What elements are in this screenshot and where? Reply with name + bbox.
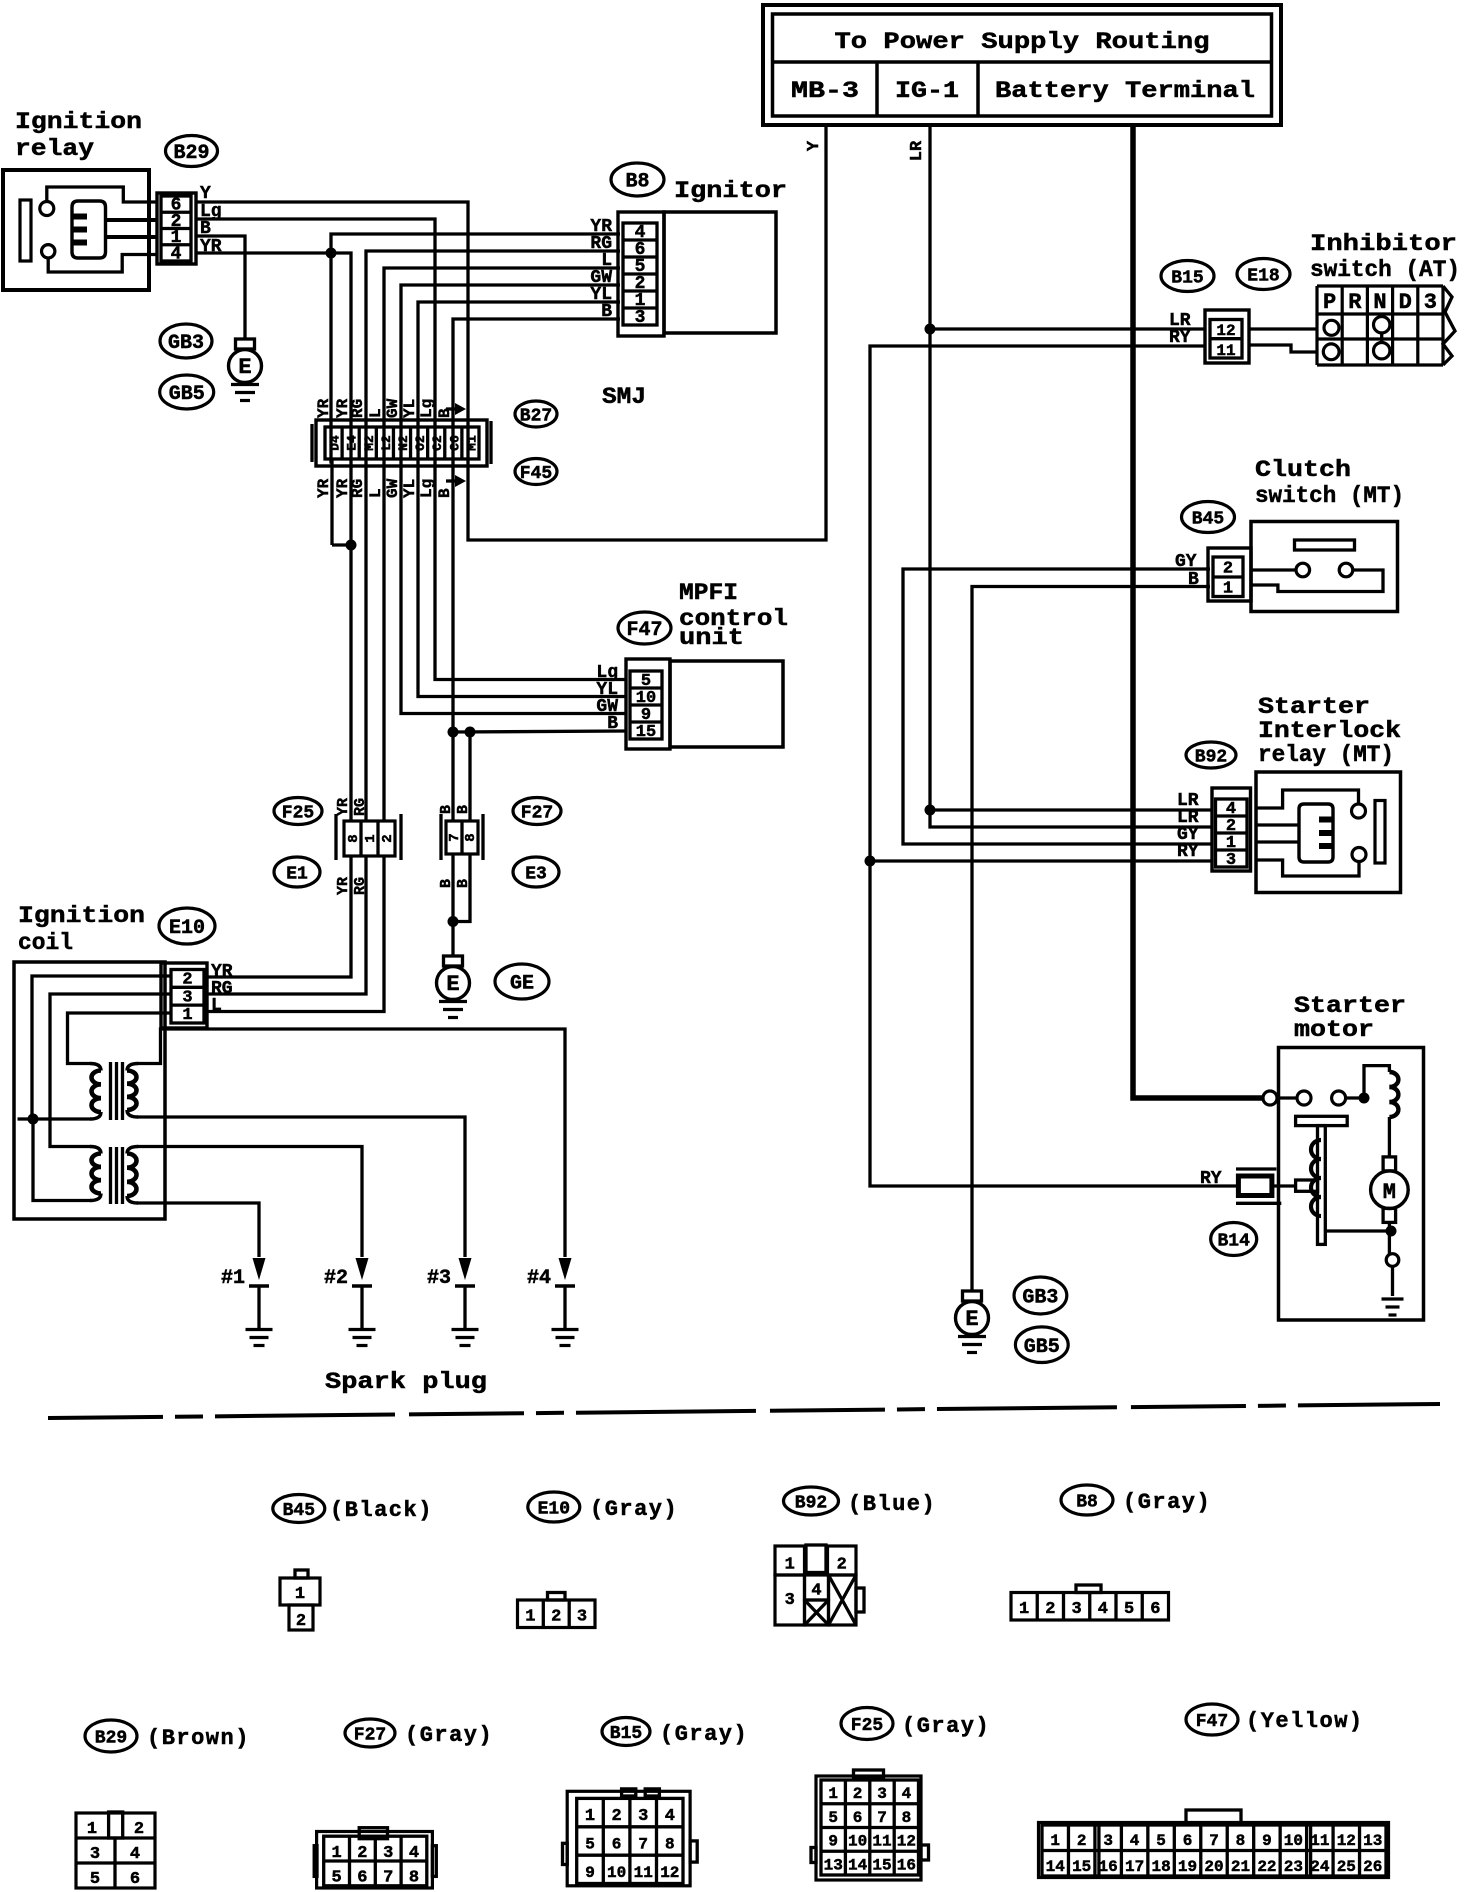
svg-text:(Gray): (Gray) bbox=[1123, 1490, 1211, 1515]
svg-text:E10: E10 bbox=[538, 1499, 570, 1519]
wire YR to ignitor pin4 bbox=[331, 234, 620, 253]
spark plug #1 bbox=[253, 1258, 266, 1280]
svg-text:26: 26 bbox=[1363, 1858, 1382, 1876]
svg-text:4: 4 bbox=[1130, 1832, 1140, 1850]
starter solenoid hold winding bbox=[1311, 1140, 1321, 1159]
svg-text:MPFI: MPFI bbox=[679, 580, 738, 606]
svg-text:F27: F27 bbox=[354, 1725, 386, 1745]
svg-text:GB3: GB3 bbox=[168, 332, 204, 355]
transformer 1 primary winding bbox=[90, 1064, 101, 1071]
interlock bottom contact circle bbox=[1352, 848, 1366, 862]
wire B to MPFI pin15 bbox=[453, 731, 626, 732]
starter motor ground bbox=[1391, 1266, 1394, 1296]
svg-text:4: 4 bbox=[409, 1844, 419, 1863]
svg-text:B29: B29 bbox=[173, 142, 209, 165]
svg-text:8: 8 bbox=[463, 833, 479, 841]
transformer 1 secondary winding bbox=[127, 1064, 138, 1071]
interlock internal wire pin3 to bottom contact bbox=[1256, 860, 1359, 876]
wire spark plug 1 from transformer2 secondary bottom bbox=[137, 1203, 259, 1257]
svg-text:2: 2 bbox=[853, 1785, 863, 1803]
svg-text:F47: F47 bbox=[626, 619, 662, 642]
starter motor junction to solenoid coil bbox=[1346, 1096, 1364, 1099]
clutch internal wire pin2 to contact bbox=[1251, 568, 1296, 571]
interlock internal wire pin4 to top contact bbox=[1256, 790, 1359, 808]
svg-text:B92: B92 bbox=[795, 1493, 827, 1513]
svg-text:B: B bbox=[455, 805, 472, 814]
svg-text:(Brown): (Brown) bbox=[147, 1726, 250, 1751]
inhibitor connector pins 12-11 bbox=[1205, 310, 1249, 363]
svg-text:F45: F45 bbox=[520, 464, 552, 484]
svg-text:GW: GW bbox=[384, 478, 402, 498]
svg-text:4: 4 bbox=[1098, 1600, 1108, 1619]
svg-text:16: 16 bbox=[1099, 1858, 1118, 1876]
svg-text:8: 8 bbox=[1236, 1832, 1246, 1850]
MPFI box bbox=[670, 661, 783, 747]
wire YR branch to SMJ wire2 bbox=[331, 253, 351, 820]
svg-text:3: 3 bbox=[1103, 1832, 1113, 1850]
ignition relay internal wire top-contact to pin6 bbox=[47, 187, 157, 202]
svg-text:8: 8 bbox=[902, 1809, 912, 1827]
connector badge F47 bbox=[618, 612, 671, 644]
svg-text:To Power Supply Routing: To Power Supply Routing bbox=[835, 29, 1210, 55]
wire spark plug 3 from transformer1 secondary bottom bbox=[137, 1117, 465, 1257]
svg-text:2: 2 bbox=[380, 834, 396, 842]
wire Lg: relay pin2 to SMJ and MPFI pin5 bbox=[196, 219, 626, 680]
svg-text:C6: C6 bbox=[447, 435, 462, 451]
ignition coil box bbox=[14, 962, 165, 1219]
wire L below F25 to ignition coil pin1 bbox=[207, 856, 384, 1012]
svg-text:2: 2 bbox=[357, 1844, 367, 1863]
svg-text:B27: B27 bbox=[520, 406, 552, 426]
connector badge E10 bbox=[159, 908, 215, 944]
ignition relay contact circle bottom bbox=[42, 245, 55, 258]
svg-text:1: 1 bbox=[525, 1608, 535, 1627]
svg-text:Ignitor: Ignitor bbox=[674, 178, 787, 204]
wire GY: clutch switch pin 2 to interlock pin 1 bbox=[903, 569, 1212, 844]
wire L: SMJ wire4 to ignitor pin5 bbox=[384, 268, 620, 820]
connector badge B14 bbox=[1211, 1223, 1257, 1256]
svg-text:B8: B8 bbox=[1076, 1492, 1098, 1512]
MPFI connector pins 5-10-9-15 bbox=[626, 659, 670, 749]
svg-text:12: 12 bbox=[660, 1864, 679, 1882]
svg-text:E: E bbox=[446, 972, 459, 997]
wire spark plug 4 from transformer1 secondary top bbox=[137, 1029, 565, 1257]
legend badge E10 bbox=[528, 1492, 580, 1522]
coil internal wire pin1 L to transformer1 primary bbox=[68, 1013, 172, 1064]
svg-text:Spark plug: Spark plug bbox=[325, 1369, 487, 1395]
svg-text:D: D bbox=[1399, 290, 1412, 315]
svg-text:3: 3 bbox=[1424, 290, 1437, 315]
svg-text:22: 22 bbox=[1257, 1858, 1276, 1876]
ignition relay connector B29 pins 6-2-1-4 bbox=[157, 193, 196, 264]
connector badge B29 bbox=[166, 136, 218, 167]
legend connector F25 bbox=[854, 1770, 884, 1777]
interlock connector pins 4-2-1-3 bbox=[1212, 788, 1251, 871]
svg-text:(Black): (Black) bbox=[330, 1498, 433, 1523]
svg-text:LR: LR bbox=[908, 140, 927, 161]
svg-text:GB5: GB5 bbox=[1024, 1336, 1060, 1359]
svg-text:1: 1 bbox=[1050, 1832, 1060, 1850]
svg-text:RG: RG bbox=[349, 399, 367, 418]
junction under motor bbox=[1386, 1226, 1397, 1237]
svg-text:RG: RG bbox=[349, 479, 367, 498]
svg-text:RY: RY bbox=[1169, 328, 1191, 348]
interlock internal wires pins 2,1 to coil bbox=[1256, 823, 1299, 826]
svg-text:14: 14 bbox=[1046, 1858, 1066, 1876]
transformer 2 primary winding bbox=[90, 1147, 101, 1154]
svg-text:3: 3 bbox=[577, 1608, 587, 1627]
svg-text:8: 8 bbox=[665, 1836, 675, 1854]
ignition relay internal wire bottom-contact to pin4 bbox=[48, 255, 157, 273]
svg-text:C2: C2 bbox=[430, 435, 445, 451]
svg-text:E10: E10 bbox=[169, 917, 205, 940]
svg-text:1: 1 bbox=[87, 1820, 97, 1839]
svg-text:11: 11 bbox=[872, 1833, 891, 1851]
svg-text:20: 20 bbox=[1204, 1858, 1223, 1876]
wire YR below F25 to ignition coil pin2 bbox=[207, 856, 351, 977]
svg-text:1: 1 bbox=[828, 1785, 838, 1803]
legend connector B15 bbox=[622, 1789, 636, 1796]
svg-text:coil: coil bbox=[18, 930, 73, 956]
legend badge B15 bbox=[602, 1718, 650, 1746]
svg-text:F27: F27 bbox=[521, 803, 553, 823]
clutch switch box bbox=[1251, 522, 1398, 612]
ignitor connector pins 4-6-5-2-1-3 bbox=[618, 212, 664, 336]
svg-text:Lg: Lg bbox=[418, 479, 436, 498]
F25/E1 inline connector pins 8-1-2 bbox=[336, 814, 401, 860]
starter solenoid pull-in winding bbox=[1364, 1066, 1389, 1098]
svg-text:#3: #3 bbox=[427, 1267, 451, 1290]
SMJ connector block B27/F45 bbox=[316, 420, 487, 466]
transformer 2 secondary winding bbox=[127, 1147, 138, 1154]
svg-text:7: 7 bbox=[877, 1809, 887, 1827]
junction YR node bbox=[326, 248, 337, 259]
svg-text:2: 2 bbox=[134, 1820, 144, 1839]
svg-text:5: 5 bbox=[90, 1870, 100, 1889]
svg-text:relay: relay bbox=[15, 136, 94, 162]
clutch switch contact circles bbox=[1296, 563, 1310, 577]
svg-text:7: 7 bbox=[1209, 1832, 1219, 1850]
power supply routing box bbox=[763, 5, 1281, 125]
svg-text:25: 25 bbox=[1337, 1858, 1356, 1876]
svg-text:E1: E1 bbox=[286, 864, 308, 884]
svg-text:1: 1 bbox=[1019, 1600, 1029, 1619]
svg-text:E3: E3 bbox=[525, 864, 547, 884]
svg-text:IG-1: IG-1 bbox=[895, 78, 959, 104]
svg-text:2: 2 bbox=[551, 1608, 561, 1627]
svg-text:B14: B14 bbox=[1217, 1231, 1250, 1251]
svg-text:1: 1 bbox=[363, 834, 379, 842]
legend connector B92 bbox=[775, 1546, 805, 1575]
wire RY: inhibitor pin 11 to starter motor resistor bbox=[870, 346, 1237, 1186]
svg-text:11: 11 bbox=[1216, 342, 1235, 360]
svg-text:2: 2 bbox=[837, 1556, 847, 1575]
svg-text:B: B bbox=[436, 408, 454, 418]
svg-text:2: 2 bbox=[1077, 1832, 1087, 1850]
svg-text:15: 15 bbox=[636, 723, 656, 742]
wire junction to plunger bbox=[1325, 1229, 1391, 1232]
starter resistor contact bar bbox=[1296, 1180, 1318, 1191]
legend badge B45 bbox=[273, 1495, 325, 1523]
svg-text:1: 1 bbox=[182, 1006, 192, 1025]
svg-text:3: 3 bbox=[877, 1785, 887, 1803]
svg-text:5: 5 bbox=[1156, 1832, 1166, 1850]
ground E (relay B) bbox=[236, 339, 255, 349]
svg-text:7: 7 bbox=[638, 1836, 648, 1854]
legend badge B29 bbox=[85, 1720, 137, 1752]
svg-text:switch (MT): switch (MT) bbox=[1255, 483, 1404, 509]
svg-text:3: 3 bbox=[90, 1845, 100, 1864]
svg-text:8: 8 bbox=[346, 834, 362, 842]
junction coil primary common bbox=[28, 1114, 39, 1125]
inhibitor contacts circles bbox=[1324, 320, 1339, 335]
svg-text:#4: #4 bbox=[527, 1267, 551, 1290]
svg-text:F25: F25 bbox=[282, 803, 314, 823]
interlock relay box bbox=[1256, 772, 1401, 893]
svg-text:5: 5 bbox=[331, 1869, 341, 1888]
svg-text:Clutch: Clutch bbox=[1255, 457, 1351, 483]
svg-text:GB5: GB5 bbox=[169, 383, 205, 406]
svg-text:8: 8 bbox=[409, 1869, 419, 1888]
svg-text:Y: Y bbox=[200, 184, 211, 204]
svg-text:B: B bbox=[607, 714, 618, 734]
svg-text:9: 9 bbox=[1262, 1832, 1272, 1850]
svg-text:Lg: Lg bbox=[418, 399, 436, 418]
svg-text:B: B bbox=[438, 805, 455, 814]
svg-text:R: R bbox=[1348, 290, 1362, 315]
svg-text:4: 4 bbox=[171, 244, 182, 264]
transformer 2 core bbox=[109, 1147, 112, 1204]
svg-text:19: 19 bbox=[1178, 1858, 1197, 1876]
svg-text:1: 1 bbox=[295, 1585, 305, 1604]
legend badge F27 bbox=[345, 1719, 395, 1747]
svg-text:17: 17 bbox=[1125, 1858, 1144, 1876]
svg-text:1: 1 bbox=[1223, 580, 1233, 599]
svg-text:11: 11 bbox=[1310, 1832, 1329, 1850]
coil internal wire pin2 YR to primaries bbox=[32, 976, 171, 1119]
starter motor contact circles bbox=[1297, 1091, 1311, 1105]
svg-text:(Gray): (Gray) bbox=[405, 1723, 493, 1748]
connector badge F25 bbox=[274, 798, 322, 825]
svg-text:B8: B8 bbox=[625, 171, 649, 194]
spark plug #2 bbox=[356, 1258, 369, 1280]
svg-text:switch (AT): switch (AT) bbox=[1310, 257, 1460, 283]
svg-text:9: 9 bbox=[585, 1864, 595, 1882]
wire B branch down to F27 pin8 bbox=[468, 732, 471, 821]
svg-text:14: 14 bbox=[848, 1856, 868, 1874]
svg-text:P: P bbox=[1323, 290, 1336, 315]
svg-text:2: 2 bbox=[1223, 560, 1233, 579]
svg-text:RG: RG bbox=[352, 798, 369, 816]
svg-text:M2: M2 bbox=[362, 435, 377, 451]
svg-text:10: 10 bbox=[848, 1833, 867, 1851]
wire YL: SMJ wire6 to ignitor pin1 and MPFI pin10 bbox=[418, 302, 626, 697]
svg-text:YL: YL bbox=[401, 479, 419, 498]
svg-text:(Gray): (Gray) bbox=[902, 1714, 990, 1739]
ignition relay coil wire to pin1 bbox=[106, 235, 158, 239]
interlock coil comb bbox=[1299, 804, 1333, 862]
svg-text:3: 3 bbox=[1226, 851, 1236, 870]
svg-text:#2: #2 bbox=[324, 1267, 348, 1290]
legend connector B8 bbox=[1076, 1585, 1101, 1593]
junction YR wire1-wire2 merge bbox=[346, 540, 357, 551]
spark plug #3 bbox=[459, 1258, 472, 1280]
wire RG: SMJ wire3 to ignitor pin6 bbox=[366, 251, 620, 820]
interlock top contact circle bbox=[1352, 804, 1366, 818]
svg-text:Starter: Starter bbox=[1258, 694, 1370, 720]
svg-text:10: 10 bbox=[1284, 1832, 1303, 1850]
wire B below F27 right bbox=[453, 854, 470, 922]
ignition relay contact circle top bbox=[40, 202, 54, 216]
connector badge B27 bbox=[515, 401, 557, 427]
svg-text:1: 1 bbox=[585, 1807, 595, 1826]
svg-text:RY: RY bbox=[1177, 842, 1199, 862]
svg-text:2: 2 bbox=[1045, 1600, 1055, 1619]
junction B wire dot1 bbox=[448, 727, 459, 738]
wire M to junction bbox=[1388, 1223, 1391, 1254]
svg-text:L: L bbox=[367, 488, 385, 498]
svg-text:GY: GY bbox=[1175, 552, 1197, 572]
svg-text:B45: B45 bbox=[283, 1501, 315, 1521]
svg-text:3: 3 bbox=[1071, 1600, 1081, 1619]
svg-text:#1: #1 bbox=[221, 1267, 245, 1290]
svg-text:4: 4 bbox=[902, 1785, 912, 1803]
clutch switch slot bbox=[1295, 540, 1355, 550]
wire LR to interlock relay pin 4 bbox=[930, 808, 1212, 811]
wire LR to interlock relay pin 2 bbox=[930, 810, 1212, 827]
wire Battery Terminal (thick) to starter motor bbox=[1133, 125, 1263, 1098]
wire B: relay pin1 to ground bbox=[196, 236, 245, 339]
svg-text:GE: GE bbox=[510, 973, 534, 996]
wire B branch down to F27 pin7 bbox=[451, 732, 454, 821]
svg-text:B29: B29 bbox=[95, 1728, 127, 1748]
connector badge B45 top bbox=[1182, 502, 1235, 533]
wire B: clutch switch pin 1 to ground bbox=[972, 587, 1210, 1292]
wire B ground symbol right bbox=[963, 1291, 982, 1301]
svg-text:(Gray): (Gray) bbox=[660, 1722, 748, 1747]
wire pin11 to switch grid bbox=[1249, 345, 1317, 352]
wire RG below F25 to ignition coil pin3 bbox=[207, 856, 366, 994]
ignition relay coil comb bbox=[72, 201, 106, 258]
legend badge F47 bbox=[1186, 1704, 1238, 1735]
badge GB5 right bbox=[1015, 1327, 1068, 1363]
svg-text:YR: YR bbox=[315, 398, 333, 418]
svg-text:1: 1 bbox=[785, 1556, 795, 1575]
svg-text:3: 3 bbox=[635, 308, 646, 328]
svg-text:1: 1 bbox=[331, 1844, 341, 1863]
svg-text:MB-3: MB-3 bbox=[791, 78, 859, 104]
svg-text:6: 6 bbox=[1150, 1600, 1160, 1619]
svg-text:E18: E18 bbox=[1247, 266, 1279, 286]
badge GE bbox=[495, 964, 549, 999]
ignition relay coil wire to pin2 bbox=[106, 218, 158, 222]
wire spark plug 2 from transformer2 secondary top bbox=[137, 1147, 362, 1258]
svg-text:YL: YL bbox=[401, 399, 419, 418]
svg-text:3: 3 bbox=[383, 1844, 393, 1863]
svg-text:unit: unit bbox=[679, 625, 744, 651]
svg-text:B: B bbox=[601, 302, 612, 322]
connector badge E1 bbox=[274, 857, 320, 887]
svg-text:E4: E4 bbox=[345, 435, 360, 451]
legend connector E10 bbox=[548, 1593, 566, 1601]
svg-text:2: 2 bbox=[296, 1612, 306, 1631]
svg-text:RY: RY bbox=[1200, 1169, 1222, 1189]
svg-text:7: 7 bbox=[447, 833, 463, 841]
svg-text:6: 6 bbox=[130, 1870, 140, 1889]
ignition coil connector pins 2-3-1 bbox=[161, 963, 207, 1028]
F27/E3 inline connector pins 7-8 bbox=[441, 814, 483, 860]
badge GB3 left bbox=[160, 324, 212, 358]
svg-text:3: 3 bbox=[785, 1591, 795, 1610]
connector badge F27 bbox=[513, 798, 561, 825]
wire YR: relay pin4 trunk bbox=[196, 251, 331, 254]
svg-text:L: L bbox=[211, 996, 222, 1016]
svg-text:Ignition: Ignition bbox=[18, 903, 145, 929]
ignition relay slot bar bbox=[20, 200, 31, 261]
starter solenoid plunger T bar bbox=[1296, 1116, 1348, 1125]
wire B: SMJ wire8 to ignitor pin3 and MPFI pin15 bbox=[453, 319, 620, 732]
junction B wire dot2 bbox=[465, 727, 476, 738]
svg-text:N: N bbox=[1373, 290, 1386, 315]
svg-text:GB3: GB3 bbox=[1022, 1287, 1058, 1310]
svg-text:B92: B92 bbox=[1195, 747, 1227, 767]
svg-text:21: 21 bbox=[1231, 1858, 1250, 1876]
wire B below F27 left bbox=[451, 854, 454, 922]
legend badge F25 bbox=[841, 1708, 893, 1740]
connector badge B92 top bbox=[1186, 742, 1236, 768]
svg-text:5: 5 bbox=[828, 1809, 838, 1827]
svg-text:12: 12 bbox=[1216, 322, 1235, 340]
wire GW: SMJ wire5 to ignitor pin2 and MPFI pin9 bbox=[401, 285, 626, 714]
svg-text:Starter: Starter bbox=[1294, 993, 1406, 1019]
svg-text:9: 9 bbox=[828, 1833, 838, 1851]
svg-text:Y: Y bbox=[805, 140, 824, 151]
svg-text:F25: F25 bbox=[851, 1716, 883, 1736]
svg-text:6: 6 bbox=[853, 1809, 863, 1827]
junction B merge bbox=[448, 916, 459, 927]
svg-text:23: 23 bbox=[1284, 1858, 1303, 1876]
svg-text:4: 4 bbox=[130, 1845, 140, 1864]
svg-text:Inhibitor: Inhibitor bbox=[1310, 231, 1457, 257]
connector badge F45 bbox=[515, 459, 557, 485]
spark plug #4 bbox=[559, 1258, 572, 1280]
svg-text:relay (MT): relay (MT) bbox=[1258, 742, 1394, 768]
legend connector B29 bbox=[76, 1813, 155, 1888]
svg-text:(Gray): (Gray) bbox=[590, 1497, 678, 1522]
wire pin12 to switch grid bbox=[1249, 327, 1317, 330]
svg-text:12: 12 bbox=[1337, 1832, 1356, 1850]
svg-text:11: 11 bbox=[634, 1864, 653, 1882]
legend badge B92 bbox=[784, 1487, 839, 1515]
svg-text:E: E bbox=[965, 1307, 978, 1332]
ignitor box bbox=[664, 212, 776, 333]
coil internal wire pin3 RG to transformer2 primary bbox=[50, 994, 171, 1147]
svg-text:B45: B45 bbox=[1192, 509, 1224, 529]
junction LR/interlock pin4 bbox=[925, 805, 936, 816]
svg-text:18: 18 bbox=[1151, 1858, 1170, 1876]
svg-text:4: 4 bbox=[665, 1807, 675, 1826]
svg-text:15: 15 bbox=[872, 1856, 891, 1874]
svg-text:(Yellow): (Yellow) bbox=[1246, 1709, 1364, 1734]
svg-text:L2: L2 bbox=[379, 435, 394, 451]
starter motor terminal circle outside bbox=[1263, 1091, 1277, 1105]
junction LR/inhibitor bbox=[925, 324, 936, 335]
wire Y arrows at SMJ bbox=[446, 407, 457, 410]
svg-text:GW: GW bbox=[384, 398, 402, 418]
svg-text:12: 12 bbox=[897, 1833, 916, 1851]
svg-text:3: 3 bbox=[638, 1807, 648, 1826]
clutch connector pins 2-1 bbox=[1208, 548, 1251, 601]
